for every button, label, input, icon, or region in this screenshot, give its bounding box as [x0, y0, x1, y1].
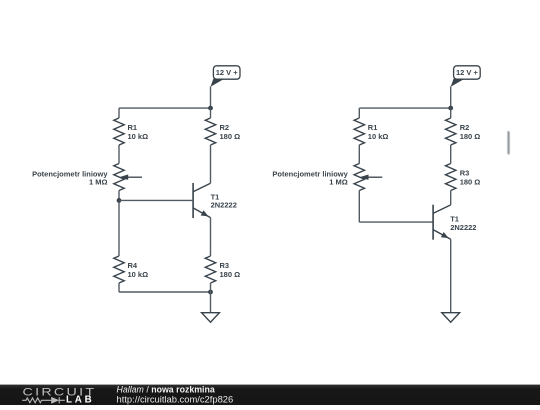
svg-text:180 Ω: 180 Ω: [460, 132, 481, 141]
svg-text:1 MΩ: 1 MΩ: [89, 178, 108, 187]
svg-text:10 kΩ: 10 kΩ: [128, 132, 149, 141]
svg-text:R2: R2: [460, 123, 470, 132]
svg-text:10 kΩ: 10 kΩ: [128, 270, 149, 279]
svg-text:10 kΩ: 10 kΩ: [368, 132, 389, 141]
svg-text:R3: R3: [460, 168, 470, 177]
svg-text:R4: R4: [128, 261, 138, 270]
svg-text:R1: R1: [368, 123, 378, 132]
svg-text:180 Ω: 180 Ω: [220, 270, 241, 279]
svg-text:12 V +: 12 V +: [216, 68, 239, 77]
svg-text:LAB: LAB: [66, 395, 95, 405]
svg-text:1 MΩ: 1 MΩ: [329, 178, 348, 187]
svg-text:2N2222: 2N2222: [211, 201, 237, 210]
svg-text:R2: R2: [220, 123, 230, 132]
svg-text:180 Ω: 180 Ω: [220, 132, 241, 141]
svg-text:180 Ω: 180 Ω: [460, 177, 481, 186]
svg-text:12 V +: 12 V +: [456, 68, 479, 77]
svg-text:http://circuitlab.com/c2fp826: http://circuitlab.com/c2fp826: [117, 394, 234, 405]
svg-text:R3: R3: [220, 261, 230, 270]
svg-text:2N2222: 2N2222: [450, 223, 476, 232]
svg-text:R1: R1: [128, 123, 138, 132]
